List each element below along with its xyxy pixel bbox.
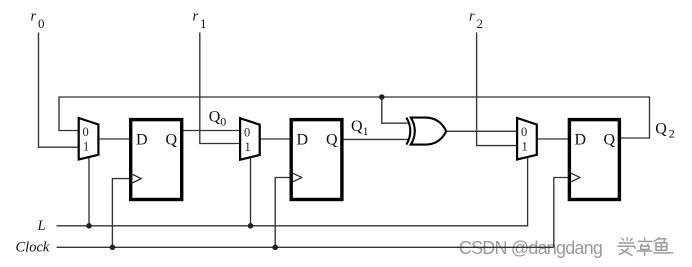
svg-text:1: 1 — [363, 124, 369, 138]
svg-text:Clock: Clock — [16, 239, 50, 255]
svg-text:0: 0 — [220, 115, 226, 129]
watermark chinese glyph yu — [653, 237, 674, 254]
wire FF3 clock riser — [554, 178, 569, 248]
svg-text:Q: Q — [166, 132, 178, 149]
wire Clock line — [57, 246, 554, 248]
node junction Clock FF2 — [272, 245, 278, 251]
wire mux2 select — [250, 157, 252, 226]
svg-text:0: 0 — [38, 16, 45, 31]
watermark chinese glyph zhang — [637, 237, 654, 256]
label r2 — [469, 9, 483, 31]
wire mux1 select — [88, 157, 90, 226]
wire Q0 from FF1 to mux2 — [183, 130, 240, 132]
svg-text:Q: Q — [209, 108, 221, 125]
label r1 — [193, 9, 207, 31]
node junction top feedback — [379, 94, 385, 100]
multiplexer mux2 — [240, 118, 260, 160]
svg-text:1: 1 — [245, 140, 251, 154]
flip-flop FF3 — [569, 120, 619, 200]
watermark CSDN text — [459, 238, 603, 259]
FF2 clock triangle — [293, 173, 302, 181]
wire Q1 from FF2 to xor — [343, 138, 408, 140]
label Q2 — [655, 120, 675, 140]
wire FF1 clock riser — [112, 179, 130, 248]
FF3 clock triangle — [571, 173, 580, 181]
svg-text:0: 0 — [83, 125, 89, 139]
svg-text:Q: Q — [604, 132, 616, 149]
label r0 — [31, 9, 45, 31]
multiplexer mux3 — [517, 118, 537, 160]
svg-text:CSDN @dangdang: CSDN @dangdang — [459, 238, 602, 258]
watermark chinese glyph ai — [618, 237, 637, 256]
wire r0 vertical — [39, 33, 79, 148]
wire r1 vertical — [200, 33, 240, 144]
svg-text:Q: Q — [655, 120, 667, 137]
label Q1 — [351, 118, 369, 138]
wire mux2 to D2 — [260, 138, 291, 140]
flip-flop FF1 — [131, 120, 182, 200]
svg-text:r: r — [31, 9, 37, 25]
svg-text:2: 2 — [669, 126, 675, 140]
svg-text:r: r — [193, 9, 199, 25]
wire xor top branch — [382, 97, 408, 123]
wire L line — [57, 157, 528, 226]
FF1 clock triangle — [133, 174, 142, 182]
svg-text:0: 0 — [244, 125, 250, 139]
wire r2 vertical — [477, 33, 517, 146]
svg-text:L: L — [37, 218, 46, 234]
svg-text:1: 1 — [83, 140, 89, 154]
wire feedback top — [59, 97, 650, 138]
wire xor output to mux3 — [446, 130, 517, 132]
wire FF2 clock riser — [275, 178, 290, 248]
node junction Clock FF1 — [110, 245, 116, 251]
flip-flop FF2 — [291, 120, 342, 200]
svg-text:Q: Q — [351, 118, 363, 135]
svg-text:1: 1 — [200, 16, 207, 31]
label Q0 — [209, 108, 226, 128]
node junction L mux1 — [86, 223, 92, 229]
multiplexer mux1 — [79, 118, 99, 160]
svg-text:Q: Q — [326, 132, 338, 149]
xor gate U1 — [406, 118, 446, 145]
wire mux3 to D3 — [537, 138, 569, 140]
svg-text:1: 1 — [522, 140, 528, 154]
wire mux1 to D1 — [98, 138, 130, 140]
svg-text:D: D — [575, 132, 587, 149]
svg-text:D: D — [297, 132, 309, 149]
svg-text:2: 2 — [477, 16, 484, 31]
node junction L mux2 — [248, 223, 254, 229]
svg-text:r: r — [469, 9, 475, 25]
svg-text:D: D — [136, 132, 148, 149]
svg-text:0: 0 — [521, 125, 527, 139]
